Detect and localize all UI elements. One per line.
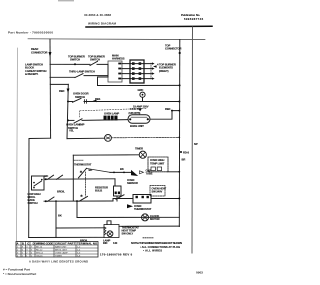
node row B dot clock	[76, 200, 78, 202]
svg-text:WIRING CODE: WIRING CODE	[36, 241, 53, 245]
node row B dot mid	[55, 200, 57, 202]
svg-text:RED: RED	[59, 89, 65, 93]
label wire code right	[183, 150, 189, 154]
dashed aux box	[150, 186, 165, 197]
svg-text:NP: NP	[194, 142, 198, 146]
legend functional part	[3, 267, 30, 271]
switch S4 oven lamp	[74, 119, 82, 123]
wire row B jog	[113, 199, 133, 202]
label THRU-LAMP SWITCH	[69, 69, 95, 73]
svg-text:30-3863 & 30-3868: 30-3863 & 30-3868	[84, 13, 111, 17]
label 15KO	[130, 107, 139, 111]
node junction dot	[74, 63, 76, 65]
svg-text:SW ONLY: SW ONLY	[122, 232, 134, 236]
label LMP	[79, 122, 85, 126]
bake element triangle	[138, 108, 142, 111]
label TOP BURNER SWITCH right	[88, 55, 105, 62]
label thermostat heat	[122, 226, 140, 236]
label oven thermostat right	[134, 204, 152, 211]
table column lines	[21, 242, 76, 258]
parts table frame	[16, 242, 98, 258]
arrow on L1 feed	[49, 52, 52, 57]
wire bake row B	[44, 200, 113, 202]
table row lines	[16, 245, 98, 254]
svg-text:SWITCH: SWITCH	[75, 95, 85, 99]
wire L1 corner to left bus	[29, 138, 51, 237]
svg-text:OVEN LAMP: OVEN LAMP	[104, 112, 119, 116]
wire branch to red lead	[50, 83, 68, 85]
svg-text:SW 240V: SW 240V	[152, 190, 163, 194]
connector J1 body	[108, 61, 122, 82]
dashed lamp enclosure left	[79, 111, 81, 117]
wire clock motor row	[77, 216, 179, 218]
ground terminal inner dot	[142, 94, 144, 96]
note line 3	[143, 249, 162, 253]
gang dashed link	[85, 172, 87, 196]
ground terminal circle	[140, 92, 145, 97]
svg-text:GN-16: GN-16	[36, 256, 43, 258]
svg-text:WIRING DIAGRAM: WIRING DIAGRAM	[88, 22, 117, 26]
wire selector row A	[44, 178, 115, 180]
label BK sensor	[120, 167, 124, 171]
svg-text:SWITCH: SWITCH	[70, 58, 80, 62]
table header text	[17, 241, 98, 245]
svg-text:BROIL: BROIL	[57, 189, 65, 193]
svg-text:Publication No.: Publication No.	[181, 13, 200, 17]
bake element inner line	[131, 116, 147, 118]
svg-text:A B C D: A B C D	[17, 241, 35, 245]
switch S3 oven door	[73, 98, 82, 102]
label BK at S9	[89, 168, 93, 172]
wire bake row	[82, 119, 128, 122]
label OVEN LAMP	[104, 112, 119, 116]
timer motor X	[141, 152, 146, 157]
wire block to L2	[151, 198, 179, 200]
bake element terminal left	[129, 118, 131, 120]
node timer dot	[180, 151, 182, 153]
label BR near L2	[182, 157, 186, 161]
label clock motor	[150, 214, 160, 221]
svg-text:RD-8: RD-8	[183, 150, 189, 154]
svg-text:SENSOR: SENSOR	[127, 181, 138, 185]
switch S5b	[57, 175, 63, 179]
aux dashes	[74, 159, 84, 161]
node high limit dot	[178, 171, 180, 173]
aux box text	[152, 187, 167, 194]
bake element body	[128, 115, 150, 123]
header rule	[86, 25, 212, 28]
label RED	[59, 89, 65, 93]
selector contact block	[114, 186, 122, 196]
svg-text:BULB: BULB	[95, 188, 102, 192]
wire high limit to L2	[168, 171, 179, 173]
wire to connector	[97, 63, 108, 65]
svg-text:Part Number - 79900100000: Part Number - 79900100000	[8, 31, 53, 35]
label 4 top burner elements	[157, 63, 176, 73]
wire connector row 4	[122, 78, 152, 80]
pilot housing box	[104, 225, 119, 238]
label RED at bake corner	[165, 107, 171, 111]
relay box K1	[32, 176, 45, 190]
switch S9 thermostat main	[79, 168, 87, 178]
wire neutral bus	[98, 84, 180, 86]
label oven sensor	[127, 178, 138, 185]
wire sensor link	[87, 169, 111, 173]
note line 2	[140, 245, 180, 249]
svg-text:CONNECTOR: CONNECTOR	[165, 47, 182, 51]
connector P1 body	[130, 60, 144, 83]
node L2 top dot	[179, 52, 181, 54]
wire top burner row	[50, 63, 90, 65]
label TIMER	[135, 147, 143, 151]
wire clock drop	[76, 201, 78, 217]
label REAR CONNECTOR	[31, 47, 48, 54]
stray code	[113, 241, 118, 245]
svg-text:0903: 0903	[196, 271, 203, 275]
label oven lamp switch	[66, 123, 81, 130]
wire thru-lamp row	[50, 76, 75, 78]
high limit contacts	[151, 167, 162, 171]
label resistor bulb	[95, 185, 108, 192]
thermostat block T2	[133, 195, 151, 204]
svg-text:• TOP BURNER SWITCHES NOT SHOW: • TOP BURNER SWITCHES NOT SHOWN	[138, 241, 182, 245]
switch S2 thru-lamp	[75, 74, 83, 78]
label NP near border	[194, 142, 198, 146]
legend non-functional part	[3, 272, 36, 276]
node bake-L2 junction right	[178, 110, 180, 112]
contact marks oven row	[85, 100, 87, 104]
label TOP CONNECTOR	[165, 44, 182, 51]
wire thermostat drop	[72, 155, 74, 201]
node sensor dot a	[113, 172, 115, 174]
label THERMOSTAT over switch	[74, 162, 92, 166]
label lamp switch block	[25, 63, 47, 77]
wire ground stem	[142, 97, 144, 101]
wire sensor row	[110, 171, 131, 173]
node neutral-L2 junction	[179, 84, 181, 86]
wire L2 feed vertical	[178, 40, 181, 227]
bake element terminal right	[147, 118, 149, 120]
svg-text:* = Non-Functional Part: * = Non-Functional Part	[3, 272, 36, 276]
svg-text:TERMINAL NO: TERMINAL NO	[77, 241, 97, 245]
label RES	[95, 97, 101, 101]
svg-text:BK: BK	[45, 174, 49, 178]
svg-text:A DASH WAVY LINE DENOTES GROUN: A DASH WAVY LINE DENOTES GROUND	[29, 259, 88, 263]
svg-text:SWITCH: SWITCH	[28, 201, 38, 205]
thermostat block pins	[136, 196, 149, 198]
svg-text:RD-12: RD-12	[36, 250, 43, 252]
sensor open arrow	[140, 171, 144, 174]
svg-text:THERMOSTAT: THERMOSTAT	[134, 207, 152, 211]
svg-text:& RECEPT.: & RECEPT.	[25, 72, 38, 76]
svg-text:YEL: YEL	[69, 128, 74, 132]
svg-text:BK-10: BK-10	[36, 247, 43, 249]
signal lamp circle	[105, 135, 112, 142]
svg-text:✱: ✱	[80, 194, 83, 198]
wire block to row B	[116, 196, 118, 201]
svg-text:BROIL UNIT: BROIL UNIT	[55, 250, 68, 252]
switch S6	[48, 197, 55, 201]
label TOP BURNER SWITCH left	[68, 55, 85, 62]
label YEL corner	[69, 128, 74, 132]
svg-text:IND: IND	[103, 241, 107, 245]
drawing number	[100, 253, 133, 257]
pilot housing notch	[107, 221, 111, 225]
svg-text:• ALL WIRES: • ALL WIRES	[143, 249, 162, 253]
right border line	[191, 27, 194, 253]
high limit box	[148, 157, 168, 172]
svg-text:GRD: GRD	[138, 88, 144, 92]
star mark S9	[80, 170, 83, 174]
clock motor X	[143, 215, 147, 219]
arrow solid thermostat	[127, 204, 133, 208]
node bake-L2 junction	[171, 110, 173, 112]
label oven door switch	[73, 92, 89, 99]
label 15 AMP	[133, 104, 149, 108]
node row B dot left	[45, 200, 47, 202]
label main harness connector	[112, 54, 125, 61]
relay contact upper	[34, 181, 42, 186]
node oven row left	[67, 101, 69, 103]
svg-text:TEMP LIMIT: TEMP LIMIT	[150, 162, 165, 166]
svg-text:CONNECTOR: CONNECTOR	[31, 50, 48, 54]
dotted marks	[143, 237, 153, 239]
scan speck top edge	[58, 0, 74, 1]
wire bake row stub	[68, 119, 74, 121]
left page fold line	[17, 48, 18, 241]
label BAKE UNIT	[130, 124, 144, 128]
wire oven row	[84, 101, 180, 103]
label BK relay	[45, 174, 49, 178]
wire connector row 1	[122, 63, 152, 65]
connector J1 pins	[118, 63, 121, 80]
wire L1 feed vertical	[49, 39, 52, 138]
note label	[131, 241, 139, 245]
oven lamp receptacle block	[104, 116, 118, 121]
wire bake to corner	[150, 111, 179, 120]
switch S7 broil	[79, 196, 88, 201]
svg-text:BK: BK	[58, 213, 62, 217]
svg-text:1 5 K O: 1 5 K O	[130, 107, 139, 111]
svg-text:BAKE UNIT: BAKE UNIT	[55, 246, 67, 249]
svg-text:# = Functional Part: # = Functional Part	[3, 267, 30, 271]
wire indicator row	[56, 227, 104, 229]
date code	[196, 271, 203, 275]
arrow to elements label	[153, 65, 157, 68]
svg-text:WH-14: WH-14	[36, 253, 44, 255]
wire broil bus	[29, 236, 104, 238]
indicator lamp X	[108, 232, 112, 236]
connector row end arrows	[152, 62, 155, 79]
dashed lamp enclosure top	[80, 108, 146, 110]
wire red lead vertical	[67, 84, 68, 138]
table cell marks	[17, 246, 81, 258]
table footer bar	[29, 259, 88, 263]
arrow small on oven row	[93, 100, 97, 103]
svg-text:TIMER: TIMER	[55, 256, 62, 258]
sensor wedge	[131, 170, 138, 176]
svg-text:HARNESS: HARNESS	[112, 57, 125, 61]
thin rule under part number	[28, 38, 205, 41]
wire signal lamp row	[67, 137, 105, 139]
wire pilot to L2	[119, 225, 179, 227]
wire oven row left stub	[68, 101, 73, 103]
svg-text:THRU-LAMP SWITCH: THRU-LAMP SWITCH	[69, 69, 95, 73]
label lamp indicator	[103, 238, 111, 245]
node row A dot	[45, 178, 47, 180]
dashed bracket	[150, 63, 152, 79]
selector block pins	[115, 192, 120, 195]
label BK drop	[58, 213, 62, 217]
wire connector drop	[98, 64, 109, 85]
relay pin dots	[33, 179, 42, 189]
svg-text:(RIGHT): (RIGHT)	[159, 69, 169, 73]
svg-text:TIMER: TIMER	[135, 147, 143, 151]
svg-text:5995287745: 5995287745	[184, 17, 204, 21]
switch S8	[116, 195, 124, 199]
svg-text:TUBE: TUBE	[146, 171, 153, 175]
note line 1	[138, 241, 182, 245]
svg-text:170-19000700 REV 0: 170-19000700 REV 0	[100, 253, 133, 257]
label BROIL mid	[57, 189, 65, 193]
clock motor circle	[142, 214, 149, 221]
svg-text:BR: BR	[182, 157, 186, 161]
indicator lamp circle	[107, 231, 113, 237]
receptacle stripes	[107, 116, 114, 120]
high limit text	[150, 158, 165, 165]
connector P1 pins	[132, 62, 141, 80]
label left rear bake	[28, 192, 41, 205]
wire thru-lamp to connector	[84, 75, 108, 77]
node sensor dot b	[123, 172, 125, 174]
label bake element top	[129, 111, 141, 115]
wire connector row 3	[122, 73, 152, 75]
switch S5a	[48, 175, 54, 179]
svg-text:140: 140	[113, 241, 118, 245]
sensor tiny text	[146, 168, 153, 175]
svg-text:MOTOR: MOTOR	[150, 217, 160, 221]
svg-text:✱: ✱	[80, 170, 83, 174]
label GRD	[138, 88, 144, 92]
svg-text:REAR: REAR	[31, 47, 38, 51]
wire timer row	[73, 154, 139, 156]
arrow on red lead	[67, 89, 70, 94]
label broil unit	[80, 238, 88, 242]
svg-text:RED: RED	[165, 107, 171, 111]
spring marks	[104, 227, 106, 235]
node signal-L2 junction	[178, 137, 180, 139]
svg-text:BK: BK	[120, 167, 124, 171]
svg-text:BAKE UNIT: BAKE UNIT	[130, 124, 144, 128]
wire signal lamp dashed to L2	[111, 136, 179, 138]
svg-text:• ALL CONNECTIONS AT PLUG: • ALL CONNECTIONS AT PLUG	[140, 245, 180, 249]
node oven-L2 junction	[178, 101, 180, 103]
wire row A corner down	[114, 179, 116, 186]
svg-text:THERMOSTAT: THERMOSTAT	[74, 162, 92, 166]
timer motor circle	[139, 151, 146, 158]
switch S1 top burner	[90, 61, 98, 65]
signal lamp inner marks	[106, 137, 109, 139]
wire indicator drop	[55, 201, 57, 237]
node bake row left	[67, 119, 69, 121]
svg-text:OVEN HIGH: OVEN HIGH	[150, 158, 164, 162]
svg-text:SWITCH: SWITCH	[90, 58, 100, 62]
wire connector row 2	[122, 68, 152, 70]
svg-text:OVEN LAMP: OVEN LAMP	[55, 252, 68, 255]
star mark S7	[80, 194, 83, 198]
svg-text:CIRCUIT PART: CIRCUIT PART	[55, 241, 75, 245]
node bake-L2 dot	[178, 198, 180, 200]
